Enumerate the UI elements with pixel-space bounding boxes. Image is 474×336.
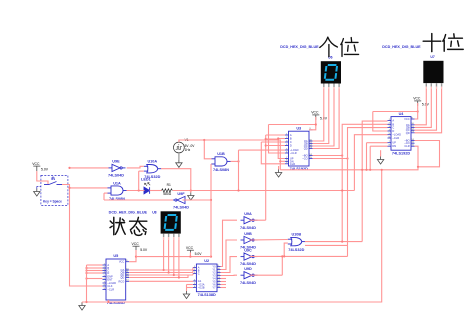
ground GND at switch S1 <box>34 189 40 197</box>
wire U9D output horizontal <box>250 274 283 276</box>
wire U8 pin1 drop <box>163 240 165 270</box>
AND gate U1B (74LS08N) <box>212 152 231 172</box>
node junction U5 gnd/bottom rail <box>107 301 109 303</box>
wire S1 output down to U5 CLK <box>62 185 103 287</box>
wire VCC2 stem to U3 VCC pin <box>309 117 316 130</box>
svg-text:RCO: RCO <box>119 279 125 283</box>
resistor R1 580Ω <box>162 183 173 196</box>
wire switch node to U1A input A <box>70 187 108 189</box>
wire to U5 B <box>87 267 103 269</box>
svg-text:5.0V: 5.0V <box>195 252 203 256</box>
node junction U5 D <box>85 272 87 274</box>
svg-text:VCC: VCC <box>186 246 194 250</box>
wire U5 QD bus <box>129 275 188 278</box>
svg-text:~G2B: ~G2B <box>198 286 205 290</box>
power VCC VCC2 (U3) <box>312 115 319 120</box>
wire U4 GND stem <box>380 150 382 156</box>
wire loop drop <box>347 245 349 256</box>
svg-text:DCD_HEX_DIG_BLUE: DCD_HEX_DIG_BLUE <box>382 45 421 49</box>
wire to U4 UP <box>367 142 388 144</box>
node bottom rail top junction <box>381 169 383 171</box>
node junction A riser <box>265 138 267 140</box>
svg-text:QD: QD <box>120 276 124 280</box>
wire riser x=342 to U4 pin2 <box>342 124 387 241</box>
svg-text:VCC: VCC <box>413 97 421 101</box>
wire U4 QB to display U7 pin2 <box>415 89 432 127</box>
wire rail B west of U9F <box>104 199 173 201</box>
svg-text:74LS04D: 74LS04D <box>240 226 256 230</box>
svg-text:U10B: U10B <box>291 233 301 237</box>
wire bus jog B <box>192 271 194 273</box>
node junction D riser <box>265 144 267 146</box>
wire loop line y=245.4 <box>305 244 348 246</box>
node U9C line junction 2 <box>281 255 283 257</box>
svg-text:R1: R1 <box>167 183 171 187</box>
svg-text:CLR: CLR <box>404 144 409 148</box>
wire to U3 B <box>278 138 285 140</box>
wire U3 ~CO east <box>313 158 348 160</box>
svg-text:D: D <box>290 144 292 148</box>
svg-text:U9C: U9C <box>244 248 252 252</box>
svg-text:74LS32D: 74LS32D <box>288 248 304 252</box>
wire U10B output east <box>305 241 362 243</box>
wire clock down left of U3 <box>204 140 280 170</box>
node VCC3 junction <box>417 110 419 112</box>
svg-text:~CO: ~CO <box>302 157 307 161</box>
power VCC VCC5 (U2) <box>187 250 194 255</box>
wire U9D output riser <box>281 256 283 275</box>
svg-text:C: C <box>290 140 292 144</box>
svg-text:QD: QD <box>406 131 410 135</box>
wire U2 Y7 stub <box>221 287 227 289</box>
svg-text:VCC: VCC <box>32 162 40 166</box>
wire VCC1 to S1 <box>37 171 48 184</box>
wire bus jog C <box>192 274 194 276</box>
wire U4 DN riser <box>369 146 371 170</box>
svg-text:5.0V: 5.0V <box>140 248 148 252</box>
7-segment display U7 (DCD_HEX_DIG_BLUE) <box>423 61 443 89</box>
node junction U8-3 <box>173 274 175 276</box>
wire U4 UP riser <box>366 143 368 170</box>
svg-text:U8: U8 <box>152 211 156 215</box>
wire to U5 D <box>87 272 103 274</box>
wire top rail riser to U4 pin4 <box>373 112 388 132</box>
wire to U4 DN <box>370 145 387 147</box>
IC U2 74LS138D <box>193 259 221 297</box>
svg-text:74LS04D: 74LS04D <box>240 281 256 285</box>
node U1B output junction <box>237 160 239 162</box>
svg-text:DCD_HEX_DIG_BLUE: DCD_HEX_DIG_BLUE <box>109 210 148 214</box>
wire riser to U10A input B <box>138 171 140 190</box>
wire U5 GND stub <box>107 300 109 302</box>
wire U3 QD to display U6 pin4 <box>313 89 340 149</box>
svg-text:74LS192D: 74LS192D <box>392 151 410 155</box>
wire C riser loop to U3 CLR <box>261 142 285 164</box>
wire U5 QC bus <box>129 274 193 276</box>
OR gate U10A (74LS32D) <box>144 160 162 179</box>
svg-text:A: A <box>290 133 292 137</box>
svg-text:ENT: ENT <box>107 278 113 282</box>
Chinese caption 十位 (tens digit) <box>423 34 463 52</box>
svg-text:LED1: LED1 <box>141 178 151 182</box>
svg-text:G1: G1 <box>198 279 202 283</box>
svg-text:D: D <box>107 271 109 275</box>
ground GND at U4 <box>377 157 383 165</box>
svg-text:U9F: U9F <box>177 192 185 196</box>
wire U4 QC to display U7 pin3 <box>415 89 437 130</box>
wire U2 Y5 stub <box>221 281 227 283</box>
node junction B <box>277 137 279 139</box>
wire V1 output up and right <box>179 140 204 142</box>
wire U5 QB bus <box>129 272 193 274</box>
svg-text:U3: U3 <box>296 126 301 130</box>
wire VCC3 stem to U4 VCC pin <box>415 103 418 119</box>
wire to U3 C <box>261 141 285 143</box>
wire U9A output horizontal <box>250 219 266 221</box>
wire VCC5 stem wire <box>189 252 191 256</box>
wire U9E output to U10A input A <box>127 166 144 168</box>
svg-text:CLR: CLR <box>290 162 295 166</box>
svg-text:5.0V: 5.0V <box>41 168 49 172</box>
svg-text:Y7: Y7 <box>212 286 216 290</box>
svg-text:U9E: U9E <box>112 160 120 164</box>
wire clock branch to U1B input A <box>204 140 211 159</box>
node junction ~BO loop <box>417 166 419 168</box>
wire to U3 A <box>266 134 285 136</box>
inverter U9E (74LS04D) <box>108 160 126 178</box>
inverter U9A (74LS04D) <box>240 212 258 230</box>
IC U4 74LS192D <box>388 112 415 156</box>
wire VCC2 line <box>269 124 316 126</box>
node junction ~CO <box>346 157 348 159</box>
svg-text:VCC: VCC <box>119 260 125 264</box>
ground GND at R1 <box>188 193 194 201</box>
node junction ~BO <box>341 154 343 156</box>
wire top rail y=111.5 <box>373 111 418 113</box>
svg-text:580Ω: 580Ω <box>163 192 172 196</box>
inverter U9D (74LS04D) <box>240 267 258 285</box>
wire U5 preset vertical to bottom rail <box>86 265 88 302</box>
wire U4 QD to display U7 pin4 <box>415 89 442 133</box>
wire VCC2 corner down to U3 ~CLR <box>269 125 286 154</box>
svg-text:B: B <box>290 137 292 141</box>
svg-text:74LS04D: 74LS04D <box>108 174 124 178</box>
svg-text:QD: QD <box>304 147 308 151</box>
svg-text:74LS192D: 74LS192D <box>290 167 308 171</box>
IC U5 74LS160D <box>103 254 130 305</box>
7-segment display U8 (DCD_HEX_DIG_BLUE) <box>161 211 181 240</box>
wire VCC rail east <box>136 256 211 258</box>
node VCC2 junction <box>315 123 317 125</box>
svg-text:U9D: U9D <box>244 267 252 271</box>
7-segment display U6 (DCD_HEX_DIG_BLUE) <box>321 61 341 89</box>
svg-text:D: D <box>392 129 394 133</box>
svg-text:Key = Space: Key = Space <box>43 200 62 204</box>
svg-text:UP: UP <box>392 141 396 145</box>
wire branch to U3 DN <box>280 160 285 162</box>
svg-text:U9B: U9B <box>244 232 252 236</box>
wire U3 GND stem <box>278 166 280 170</box>
AND gate U1A (74LS08N) <box>108 181 127 201</box>
wire U4 ~BO loop to clock riser <box>415 141 440 167</box>
power VCC VCC1 (switch) <box>33 166 40 171</box>
svg-text:74LS04D: 74LS04D <box>173 206 189 210</box>
node junction U5 ENT <box>85 277 87 279</box>
svg-text:C: C <box>392 126 394 130</box>
node switch/U1A junction <box>68 187 70 189</box>
svg-text:U1A: U1A <box>113 181 121 185</box>
svg-text:+: + <box>178 143 180 147</box>
svg-text:U2: U2 <box>204 259 209 263</box>
wire to U3 ~LOAD <box>239 149 286 151</box>
wire U10A input B stub <box>139 170 144 172</box>
wire nested link to U3 UP <box>266 139 285 159</box>
wire U2 gnd stem <box>186 285 188 292</box>
svg-text:DN: DN <box>392 144 396 148</box>
power VCC VCC3 (U4) <box>414 101 421 106</box>
wire switch to ground (dashed) <box>37 185 41 187</box>
wire rail A riser to U4 ~LOAD <box>354 135 387 191</box>
wire bottom rail <box>82 170 382 302</box>
svg-text:1Hz: 1Hz <box>185 148 191 152</box>
Chinese caption 状态 (status) <box>110 217 147 235</box>
node switch node top corner <box>68 167 70 169</box>
wire clock rail to U4 right pin <box>280 146 418 170</box>
wire U1B node vertical <box>238 150 240 190</box>
node riser/clock-rail junction 2 <box>365 169 367 171</box>
wire to U3 D <box>266 145 285 147</box>
wire U8 pin4 drop <box>178 240 180 278</box>
node riser/rail A junction <box>341 189 343 191</box>
wire U2 Y0 to U9A <box>221 220 238 266</box>
svg-text:~CLR: ~CLR <box>392 136 399 140</box>
node VCC4 junction <box>135 256 137 258</box>
node clock/U3 DN junction <box>279 160 281 162</box>
wire LED cathode to R1 <box>150 190 162 192</box>
wire U3 ~BO east <box>313 155 343 157</box>
wire bus jog A <box>192 268 194 271</box>
ground GND at V1 <box>176 160 182 168</box>
svg-text:U10A: U10A <box>147 160 157 164</box>
wire U2 Y1 to U9B <box>221 240 238 270</box>
node junction U5 B <box>85 267 87 269</box>
wire U1B input B stub <box>210 163 213 165</box>
node LED/U10A-B junction <box>138 189 140 191</box>
svg-text:VCC: VCC <box>311 111 319 115</box>
inverter U9B (74LS04D) <box>240 232 258 250</box>
wire U1A output to LED anode <box>127 190 145 192</box>
node VCC5 junction <box>189 256 191 258</box>
inverter U9C (74LS04D) <box>240 248 258 266</box>
wire switch node to U9E input <box>70 167 109 169</box>
svg-text:A: A <box>392 119 394 123</box>
wire U3 QA to display U6 pin1 <box>313 89 324 141</box>
wire U5 QA bus <box>129 269 193 271</box>
wire U2 ~G2B to gnd <box>187 287 193 289</box>
wire to U5 A <box>87 264 103 266</box>
svg-text:U5: U5 <box>113 254 118 258</box>
power VCC VCC4 (U5) <box>133 246 140 251</box>
node riser/U10B out junction <box>341 241 343 243</box>
wire U1B output <box>231 160 239 162</box>
node junction U8-1 <box>163 269 165 271</box>
wire U8 pin3 drop <box>173 240 175 275</box>
clock source V1 <box>174 138 196 160</box>
svg-text:74LS04D: 74LS04D <box>240 262 256 266</box>
wire to U5 C <box>87 270 103 272</box>
wire U3 QC to display U6 pin3 <box>313 89 335 146</box>
node clock junction <box>203 139 205 141</box>
node junction on rail A <box>237 189 239 191</box>
svg-text:~CLR: ~CLR <box>290 151 297 155</box>
wire U9C output line east <box>250 255 348 257</box>
IC U3 74LS192D <box>285 126 313 171</box>
wire U2 ~G2A to gnd <box>187 284 193 286</box>
LED LED1 <box>141 178 151 194</box>
ground GND at bottom rail <box>79 303 85 311</box>
svg-text:U9A: U9A <box>244 212 252 216</box>
node junction U5 C <box>85 269 87 271</box>
svg-text:~CLR: ~CLR <box>107 288 114 292</box>
wire U2 Y2 to U9C <box>221 257 238 273</box>
node R1/U10A/ground junction <box>190 189 192 191</box>
wire riser x=347.5 to U4 pin3 <box>348 128 388 246</box>
ground GND at U2 <box>183 291 189 299</box>
wire U10A output down to ground junction <box>161 169 191 191</box>
svg-text:VCC: VCC <box>132 242 140 246</box>
node U9C line junction 1 <box>283 255 285 257</box>
svg-text:74LS08N: 74LS08N <box>213 168 229 172</box>
node junction U8-4 <box>178 276 180 278</box>
wire U9B output to U10B input A <box>250 239 288 242</box>
node junction U8-2 <box>168 271 170 273</box>
svg-text:VCC: VCC <box>404 117 410 121</box>
wire U5 RCO to U2 G1 <box>129 280 193 282</box>
svg-text:U7: U7 <box>430 55 434 59</box>
inverter U9F (74LS04D) <box>172 192 190 210</box>
node riser/clock-rail junction 1 <box>361 169 363 171</box>
node riser/clock-rail junction 3 <box>369 169 371 171</box>
switch S1 (Key = Space) <box>41 175 68 205</box>
wire rail B east of U9F <box>183 199 212 201</box>
wire U2 Y3 to U9D <box>221 274 238 276</box>
wire U9A output riser to U3 A <box>265 135 267 220</box>
wire rail A: R1 through ground junction to U4 ~LOAD riser <box>173 190 355 192</box>
svg-text:C: C <box>198 272 200 276</box>
svg-text:U1B: U1B <box>217 152 225 156</box>
wire bottom rail to ground <box>81 301 83 304</box>
wire U2 Y6 stub <box>221 284 227 286</box>
wire tap to U10B input B <box>284 243 288 256</box>
node rail B end junction <box>210 199 212 201</box>
wire VCC4 to U5 VCC pin <box>129 250 136 262</box>
wire U4 QA to display U7 pin1 <box>415 89 427 125</box>
svg-text:74LS138D: 74LS138D <box>198 293 216 297</box>
wire to U5 ENT <box>87 278 103 280</box>
svg-text:DCD_HEX_DIG_BLUE: DCD_HEX_DIG_BLUE <box>280 45 319 49</box>
wire U3 QB to display U6 pin2 <box>313 89 329 144</box>
wire U1A input B drop to status rail <box>103 193 105 200</box>
wire U1A input B stub <box>104 192 108 194</box>
wire U8 pin2 drop <box>168 240 170 273</box>
node VCC rail junction right <box>210 256 212 258</box>
svg-text:CLK: CLK <box>107 284 112 288</box>
ground GND at U3 <box>275 170 281 178</box>
node junction bottom rail x=86.5 <box>85 301 87 303</box>
wire ground stub at R1 <box>190 191 192 193</box>
OR gate U10B (74LS32D) <box>288 233 306 252</box>
wire riser x=362 to U4 pin1 <box>362 121 387 242</box>
wire U2 Y4 stub <box>221 278 227 280</box>
Chinese caption 个位 (units digit) <box>320 37 359 56</box>
wire U1B input B long drop to VCC rail <box>210 164 212 257</box>
